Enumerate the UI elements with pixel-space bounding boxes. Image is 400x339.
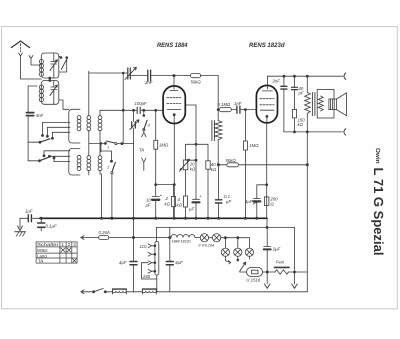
- band switch S2 contacts lower: [44, 151, 70, 162]
- selector tap 2: [148, 252, 155, 256]
- svg-text:50kΩ: 50kΩ: [226, 158, 237, 163]
- switch S1a: [60, 57, 62, 59]
- resistor 40kΩ: [206, 161, 210, 169]
- wire bus to PSU: [266, 218, 268, 227]
- resistor 2kΩ: [173, 185, 175, 219]
- wire speaker return: [284, 131, 343, 133]
- svg-text:kΩ: kΩ: [177, 203, 183, 208]
- wire cathode link: [156, 184, 175, 186]
- resistor 200Ω: [264, 197, 269, 206]
- wire socket2 to coil: [31, 62, 41, 65]
- wire antenna down: [21, 59, 42, 79]
- chassis ground a: [266, 272, 268, 284]
- svg-text:0.26A: 0.26A: [99, 230, 110, 235]
- svg-text:U 1518: U 1518: [246, 278, 260, 283]
- svg-text:1µF: 1µF: [25, 209, 33, 214]
- capacitor 1nF: [237, 106, 240, 113]
- speaker: [329, 99, 337, 110]
- capacitor 10µF electrolytic: [152, 196, 159, 198]
- svg-text:RENS 1884: RENS 1884: [157, 42, 188, 49]
- svg-text:Mittel: Mittel: [37, 248, 48, 253]
- selector lever to rectifier: [240, 262, 246, 271]
- switch S5 wave change: [101, 151, 112, 160]
- capacitor 2nF coupling: [130, 75, 174, 77]
- capacitor 0.1µF: [218, 165, 220, 219]
- antenna socket J1: [19, 53, 23, 59]
- svg-text:4µF: 4µF: [245, 199, 253, 204]
- capacitor 4µF a: [130, 262, 137, 265]
- wire tube2 cathode column: [266, 123, 268, 218]
- capacitor 1µF series: [20, 217, 40, 219]
- coil L5a column C: [99, 110, 101, 116]
- svg-text:6 V/0.26A: 6 V/0.26A: [199, 243, 215, 247]
- primary winding a: [113, 288, 127, 290]
- resistor 1MΩ grid tube2: [244, 109, 246, 111]
- tuned circuit box 2: [41, 81, 59, 105]
- node grid tube1: [173, 75, 175, 77]
- capacitor 40pF: [294, 76, 296, 109]
- capacitor 2nF tone: [283, 76, 285, 132]
- TA socket upper: [142, 131, 146, 137]
- primary winding b: [143, 288, 157, 290]
- trimmer C4 column: [133, 109, 135, 111]
- TA socket lower: [142, 158, 146, 171]
- tube U1 cathode: [173, 114, 175, 116]
- PSU top wire: [157, 226, 295, 228]
- svg-text:µF: µF: [189, 207, 194, 212]
- jack upper: [344, 73, 346, 80]
- selector tap 240: [148, 269, 155, 273]
- wire coil tap to 5nF: [28, 86, 37, 112]
- svg-text:µF: µF: [226, 199, 231, 204]
- capacitor 4µF b: [166, 262, 173, 265]
- svg-text:100pF: 100pF: [135, 101, 148, 106]
- wire fuse up: [294, 227, 296, 272]
- jack lower: [344, 129, 346, 136]
- svg-text:pF: pF: [298, 91, 304, 96]
- tube U2 RENS1823d envelope: [256, 85, 277, 123]
- mains switch: [94, 289, 103, 292]
- variable capacitor C2: [51, 81, 57, 105]
- coil L1: [39, 60, 43, 64]
- svg-text:0.1MΩ: 0.1MΩ: [218, 102, 232, 107]
- dial lamp 5: [248, 238, 250, 248]
- resistor 50kΩ AVC: [219, 164, 227, 166]
- coil L2: [39, 85, 43, 89]
- svg-text:TA: TA: [38, 259, 43, 264]
- tube U1 RENS1884 envelope: [163, 86, 185, 124]
- wire AVC box: [186, 144, 209, 161]
- wire HT column: [306, 132, 308, 292]
- svg-text:L 71 G Spezial: L 71 G Spezial: [371, 168, 386, 256]
- rectifier U1518: [247, 267, 263, 276]
- svg-text:1: 1: [107, 146, 109, 150]
- resistor 0.1MΩ: [218, 109, 219, 111]
- svg-text:240: 240: [142, 274, 151, 279]
- switch S4 wire: [89, 142, 134, 144]
- svg-text:0.1µF: 0.1µF: [46, 224, 57, 229]
- wire PSU column b: [169, 227, 171, 291]
- ground bus: [40, 217, 267, 219]
- coil L3b: [77, 155, 81, 159]
- node link between circuits: [49, 78, 51, 81]
- resistor 150kΩ: [292, 109, 296, 118]
- wire rectifier out: [263, 271, 275, 273]
- transformer secondary loop: [317, 90, 334, 119]
- secondary winding zigzag: [318, 96, 323, 111]
- svg-text:2nF: 2nF: [144, 80, 153, 85]
- svg-text:2nF: 2nF: [272, 79, 281, 84]
- svg-text:Schalter: Schalter: [37, 242, 59, 247]
- tube U1 anode: [167, 109, 181, 111]
- svg-text:4µF: 4µF: [119, 260, 127, 265]
- capacitor 4µF cathode: [253, 198, 260, 200]
- IF choke L6 with core: [212, 121, 215, 141]
- dial lamp 2: [209, 237, 213, 239]
- svg-text:Owin: Owin: [374, 148, 381, 164]
- svg-text:kΩ: kΩ: [211, 167, 217, 172]
- band switch S2 contacts upper: [43, 122, 71, 137]
- svg-text:kΩ: kΩ: [165, 202, 171, 207]
- mains bottom wire: [81, 290, 84, 294]
- wire oscillator to trimmer: [89, 72, 128, 74]
- chassis ground b: [294, 272, 296, 284]
- mains line with fuse 0.26A: [81, 236, 84, 240]
- voltage selector bracket: [156, 227, 158, 241]
- tube U2 grid cap: [262, 76, 272, 91]
- svg-text:1nF: 1nF: [234, 101, 242, 106]
- dial lamp 3: [224, 238, 226, 248]
- trimmer C3: [128, 68, 131, 79]
- selector feed wire: [142, 263, 157, 279]
- wire cathode RC stub: [257, 185, 267, 199]
- band switch S2 lever upper: [40, 139, 50, 142]
- antenna socket J2: [29, 56, 33, 63]
- node choke bottom: [217, 164, 219, 166]
- dial lamp 4: [237, 238, 239, 248]
- capacitor 5nF: [26, 113, 33, 116]
- table X marks Mittel: [61, 248, 72, 253]
- IF filter can A lower: [69, 149, 80, 176]
- potentiometer 10kΩ volume: [183, 160, 188, 170]
- resistor 50kΩ anode: [174, 75, 191, 77]
- svg-text:kΩ: kΩ: [190, 167, 196, 172]
- switch table: [36, 242, 77, 263]
- capacitor 2µF: [266, 227, 268, 272]
- resistor 1MΩ grid leak: [155, 109, 157, 111]
- svg-text:µF: µF: [146, 203, 151, 208]
- resistor 4kΩ: [184, 196, 188, 207]
- band switch S2 lever lower: [28, 142, 39, 161]
- svg-text:1MΩ: 1MΩ: [159, 143, 169, 148]
- capacitor 100pF: [137, 107, 140, 113]
- svg-text:2µF: 2µF: [272, 247, 281, 252]
- wire column C to ground bus: [100, 170, 102, 218]
- coil L5b: [98, 156, 102, 160]
- svg-text:kΩ: kΩ: [298, 122, 304, 127]
- fuse Fein: [275, 266, 290, 268]
- svg-text:RENS 1823d: RENS 1823d: [249, 42, 286, 49]
- capacitor electrolytic anode bypass: [193, 198, 200, 200]
- svg-text:Fein: Fein: [276, 260, 285, 265]
- antenna: [12, 41, 30, 48]
- IF filter can A: [69, 109, 80, 143]
- coil L4b: [87, 156, 91, 160]
- svg-text:TA: TA: [139, 148, 144, 153]
- selector tap 3: [148, 261, 155, 265]
- tube U1 grid cap: [170, 76, 178, 91]
- svg-text:4µF: 4µF: [175, 260, 183, 265]
- tube U2 anode: [260, 109, 274, 111]
- wire anode top: [267, 75, 342, 77]
- grid rail wire: [100, 109, 163, 111]
- capacitor 0.1µF to ground: [40, 218, 42, 231]
- dial lamp 1: [195, 237, 200, 239]
- coil L4a column B: [88, 71, 90, 116]
- table X mark TA: [73, 259, 77, 263]
- variable capacitor C1: [51, 53, 57, 78]
- wire cathode column: [173, 124, 175, 219]
- tube U2 cathode: [266, 115, 268, 117]
- svg-text:5nF: 5nF: [36, 113, 44, 118]
- ground earth: [19, 218, 21, 227]
- wire trimmer tap down: [122, 73, 124, 110]
- resistor primary shunt zigzag: [305, 76, 311, 132]
- wire detector out: [185, 105, 196, 160]
- svg-text:110: 110: [140, 244, 147, 249]
- svg-text:1MΩ: 1MΩ: [249, 143, 259, 148]
- transformer core: [312, 93, 315, 116]
- switch S3 to TA: [143, 109, 145, 111]
- tube U1 grids: [167, 97, 181, 99]
- wire circuit2 to filter: [59, 100, 69, 109]
- svg-text:1884 1823d: 1884 1823d: [172, 240, 192, 244]
- tube U2 grids: [260, 98, 274, 100]
- svg-text:50kΩ: 50kΩ: [191, 80, 202, 85]
- selector tap 110: [148, 244, 155, 248]
- wire pot to bus: [186, 160, 197, 218]
- tuned circuit box 1: [41, 53, 59, 78]
- wire filter column to mains: [133, 218, 135, 291]
- coil L3a: [77, 116, 81, 120]
- heater winding: [171, 235, 195, 238]
